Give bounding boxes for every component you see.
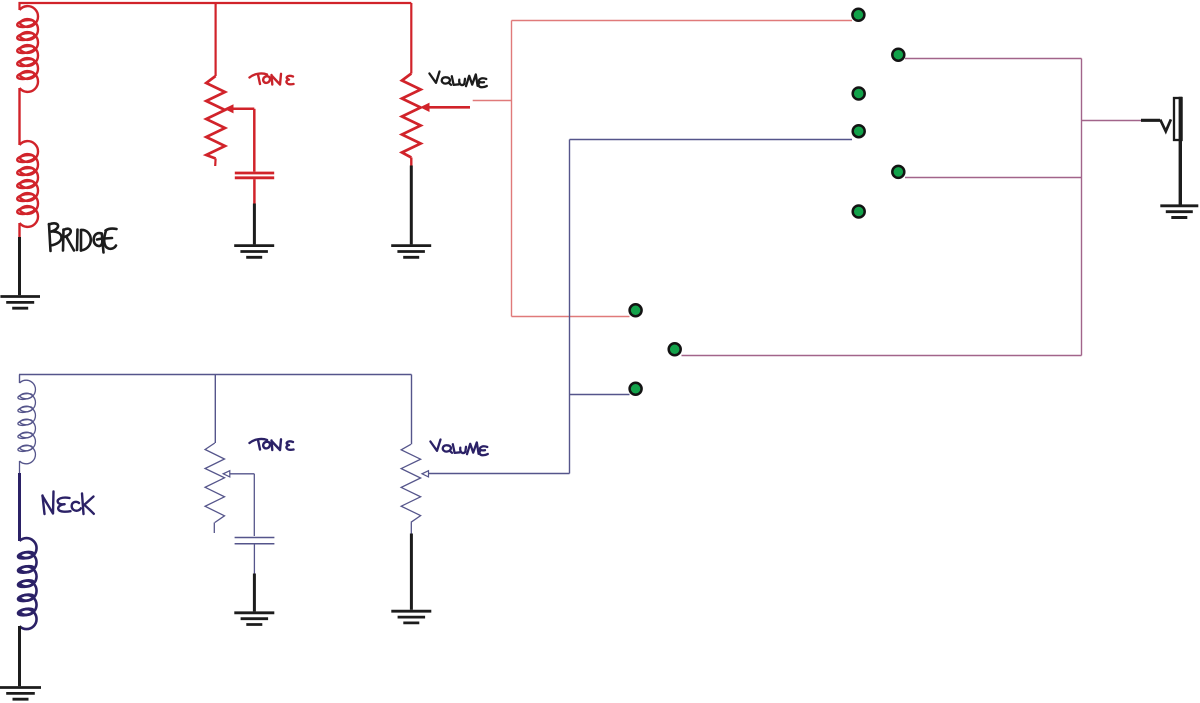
label BRIDGE bbox=[49, 223, 117, 252]
ground output jack bbox=[1160, 206, 1198, 218]
label TONE neck bbox=[250, 439, 294, 450]
wire neck tone wiper to cap bbox=[253, 474, 255, 536]
wire neck coil middle thin bbox=[19, 461, 21, 473]
wire bridge hot vertical riser bbox=[511, 21, 513, 317]
output jack body bbox=[1174, 98, 1182, 140]
wire bridge coil middle bbox=[18, 88, 20, 145]
wire output bus vertical bbox=[1081, 59, 1083, 356]
ground bridge volume bbox=[391, 246, 431, 258]
wire neck coil middle thick bbox=[18, 473, 21, 541]
ground bridge tone bbox=[234, 246, 274, 258]
wire neck tone bottom tail bbox=[213, 523, 215, 534]
switch lug 3 bbox=[853, 88, 865, 100]
wire bridge pickup ground lead bbox=[18, 237, 21, 295]
inductor bridge pickup coil lower bbox=[17, 141, 38, 227]
ground neck tone bbox=[234, 613, 274, 625]
inductor neck pickup coil upper (thin) bbox=[17, 380, 35, 464]
ground neck volume bbox=[391, 611, 431, 623]
ground bridge pickup bbox=[0, 297, 40, 309]
wire neck hot to switch lug 4 bbox=[570, 139, 853, 141]
wire neck pickup lead bbox=[19, 375, 21, 384]
wire neck cap ground lead bbox=[253, 574, 256, 612]
potentiometer neck tone resistor bbox=[205, 443, 224, 523]
wire output bus to jack tip bbox=[1082, 120, 1142, 122]
wire neck volume ground lead bbox=[410, 534, 413, 610]
switch lug 4 bbox=[853, 125, 865, 137]
wire neck top bus bbox=[19, 374, 412, 376]
wire switch lug B to output bus bbox=[682, 355, 1082, 357]
output jack tip lead bbox=[1141, 119, 1160, 122]
wire bridge tone drop bbox=[215, 3, 217, 76]
capacitor bridge tone bbox=[235, 173, 274, 178]
switch lug B bbox=[669, 343, 681, 355]
wire bridge tone bottom tail bbox=[214, 159, 217, 167]
switch lug 5 bbox=[892, 166, 904, 178]
label VOLUME bridge bbox=[429, 72, 486, 88]
wire bridge pickup to ground red stub bbox=[18, 223, 20, 237]
wire bridge top bus bbox=[19, 2, 412, 4]
wire bridge volume red stub bbox=[410, 158, 412, 166]
wire bridge cap to ground red bbox=[253, 179, 256, 203]
label NECK bbox=[43, 492, 94, 515]
potentiometer bridge tone resistor bbox=[206, 76, 225, 159]
wire neck cap to ground thin bbox=[253, 545, 255, 574]
switch lug 1 bbox=[852, 9, 864, 21]
output jack tip contact V bbox=[1160, 119, 1171, 131]
wire jack sleeve ground lead bbox=[1179, 97, 1182, 205]
wire bridge hot thin pink horizontal bbox=[473, 100, 512, 102]
wire neck pickup ground lead bbox=[18, 626, 21, 686]
wire bridge hot to switch lug 1 bbox=[512, 20, 853, 22]
wiper arrow neck tone (open) bbox=[223, 471, 230, 477]
potentiometer neck volume resistor bbox=[401, 444, 420, 522]
wire neck hot vertical riser bbox=[569, 140, 571, 474]
wire neck hot to switch lug C bbox=[570, 394, 630, 396]
wire neck volume bottom tail bbox=[410, 522, 412, 533]
wire bridge volume ground lead bbox=[410, 166, 413, 245]
potentiometer bridge volume resistor bbox=[402, 74, 421, 158]
inductor bridge pickup coil upper bbox=[17, 6, 38, 92]
wire bridge tone wiper to cap bbox=[253, 109, 256, 172]
wiper arrow bridge volume bbox=[420, 103, 430, 112]
inductor neck pickup coil lower (thick) bbox=[18, 538, 37, 629]
wiper arrow neck volume (open) bbox=[422, 471, 429, 477]
wire bridge pickup lead bbox=[18, 2, 20, 10]
ground neck pickup bbox=[0, 688, 41, 700]
switch lug 2 bbox=[892, 49, 904, 61]
wire bridge cap ground lead bbox=[253, 204, 256, 245]
wiper arrow bridge tone bbox=[224, 104, 234, 113]
capacitor neck tone bbox=[235, 538, 275, 544]
wire neck tone drop bbox=[214, 375, 216, 444]
switch lug A bbox=[630, 304, 642, 316]
wire switch lug 2 to output bus bbox=[905, 58, 1082, 60]
wire bridge volume drop bbox=[410, 3, 412, 74]
wire switch lug 5 to output bus bbox=[905, 177, 1082, 179]
switch lug C bbox=[630, 383, 642, 395]
label VOLUME neck bbox=[430, 440, 487, 456]
wire bridge hot to switch lug A bbox=[512, 316, 630, 318]
label TONE bridge bbox=[250, 74, 294, 85]
switch lug 6 bbox=[853, 206, 865, 218]
wire neck volume drop bbox=[411, 375, 413, 445]
